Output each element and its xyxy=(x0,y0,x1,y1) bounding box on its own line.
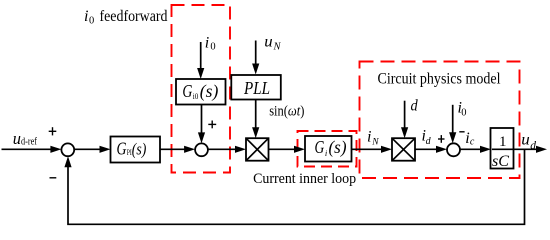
svg-text:d: d xyxy=(426,136,432,147)
svg-text:(s): (s) xyxy=(200,81,219,102)
svg-text:N: N xyxy=(273,41,282,52)
svg-text:d: d xyxy=(530,140,536,152)
svg-text:i: i xyxy=(84,8,88,25)
svg-text:(s): (s) xyxy=(329,137,347,158)
svg-text:G: G xyxy=(182,81,192,101)
svg-text:u: u xyxy=(521,131,530,148)
svg-text:N: N xyxy=(371,138,379,148)
svg-text:u: u xyxy=(264,33,272,50)
svg-text:Current inner loop: Current inner loop xyxy=(253,171,356,187)
svg-text:u: u xyxy=(13,129,21,148)
svg-text:i: i xyxy=(325,149,327,158)
svg-text:G: G xyxy=(117,138,127,158)
svg-text:d-ref: d-ref xyxy=(21,136,38,147)
svg-text:0: 0 xyxy=(210,42,215,53)
svg-text:(s): (s) xyxy=(132,139,147,158)
svg-text:sC: sC xyxy=(492,153,509,170)
svg-text:G: G xyxy=(315,137,325,157)
svg-text:0: 0 xyxy=(461,108,466,119)
svg-text:feedforward: feedforward xyxy=(100,8,168,25)
svg-text:sin(ωt): sin(ωt) xyxy=(269,103,304,119)
svg-text:d: d xyxy=(411,97,419,114)
svg-text:i: i xyxy=(367,129,371,146)
svg-text:Circuit physics model: Circuit physics model xyxy=(378,71,501,88)
svg-text:c: c xyxy=(470,137,475,148)
svg-text:PLL: PLL xyxy=(243,78,270,98)
svg-text:i0: i0 xyxy=(193,92,199,101)
svg-text:i: i xyxy=(205,35,209,52)
svg-text:1: 1 xyxy=(499,134,507,150)
svg-text:0: 0 xyxy=(89,16,94,27)
